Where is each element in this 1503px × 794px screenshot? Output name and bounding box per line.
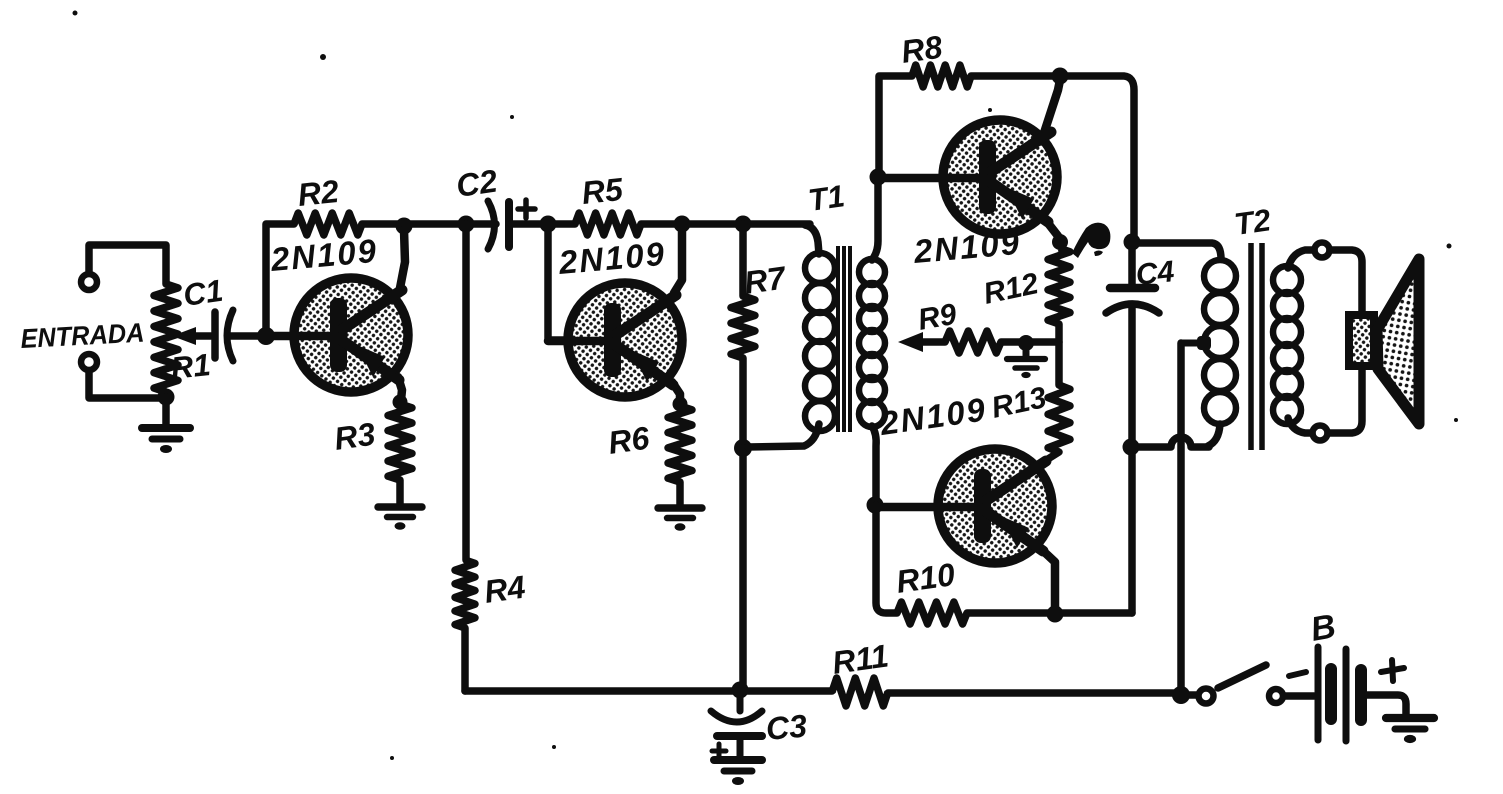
svg-text:R8: R8 [899, 29, 945, 70]
wire terminal bottom to speaker [1328, 366, 1362, 433]
wire T2 tap to battery rail [1177, 343, 1185, 692]
T2 primary bottom crossover hop [1131, 437, 1209, 447]
wire R7 top [739, 224, 747, 296]
wire to ground under R9 [1023, 343, 1030, 357]
svg-text:C3: C3 [764, 708, 808, 747]
resistor R11 [832, 678, 888, 706]
svg-text:R7: R7 [742, 259, 790, 301]
ground under R6 [658, 508, 702, 531]
wire input top to R1 [89, 245, 166, 284]
wire T1 secondary top to Q3 base [872, 181, 878, 260]
wire R2 feedback loop left [266, 224, 294, 336]
svg-text:R3: R3 [332, 416, 378, 457]
capacitor C4 [1106, 288, 1159, 313]
resistor R7 [731, 296, 755, 358]
ground under R3 [378, 507, 422, 530]
wire rail down to R4 [462, 224, 470, 560]
switch lever [1218, 665, 1266, 688]
speaker cone [1377, 259, 1419, 424]
transformer T2 secondary winding [1273, 266, 1301, 294]
svg-text:R6: R6 [606, 420, 652, 461]
transformer T1 secondary winding [859, 259, 885, 285]
resistor R8 [912, 65, 971, 87]
node Q3 base [870, 169, 887, 186]
wire top rail stage1 [362, 220, 496, 228]
resistor R3 [388, 404, 412, 480]
resistor R5 [575, 213, 641, 235]
ink blot (print artifact) [1072, 223, 1110, 258]
node Q4 base [867, 497, 884, 514]
capacitor C1 [215, 310, 233, 361]
plus sign of C2 [518, 200, 535, 218]
wire T1 bottom to bottom rail [739, 448, 747, 690]
wire collector rail to C4 line [971, 76, 1134, 240]
R1 wiper arrow [172, 327, 211, 345]
node battery rail / T2 tap [1172, 686, 1190, 704]
svg-text:T2: T2 [1232, 202, 1273, 242]
wire input bottom to R1 [89, 371, 162, 398]
node C4 top / T2 primary top [1124, 234, 1141, 251]
wire R4 to bottom rail [461, 628, 469, 691]
wire R9 to R12/R13 node [1001, 338, 1058, 346]
wire to switch [1181, 691, 1196, 699]
wire rail into T1 primary [805, 225, 819, 254]
wire node to R13 [1055, 342, 1063, 385]
node T2 primary bottom [1123, 439, 1140, 456]
wire Q4 base line down to R10 [876, 505, 897, 613]
svg-text:R1: R1 [169, 347, 212, 386]
wire R5 loop left / Q2 base [548, 224, 614, 340]
ground under R9 [1007, 359, 1045, 378]
switch throw [1269, 689, 1283, 703]
wire R1 to ground [162, 397, 170, 426]
node R9 / ground [1018, 335, 1034, 351]
resistor R10 [897, 602, 967, 624]
resistor R4 [455, 560, 475, 628]
ground under R1 [142, 428, 190, 453]
wire T2 secondary top [1288, 250, 1314, 268]
speaker terminal top [1315, 243, 1330, 258]
node C2 / R5 loop [540, 216, 557, 233]
input jack terminal top [81, 274, 97, 290]
wire T1 primary bottom [748, 424, 819, 447]
transformer T2 primary winding [1204, 260, 1236, 292]
minus sign [1289, 672, 1306, 676]
node Q2 collector / rail [674, 216, 691, 233]
node Q1 collector / rail [396, 218, 413, 235]
switch pole [1199, 689, 1214, 704]
input jack terminal bottom [81, 354, 97, 370]
svg-text:C1: C1 [181, 273, 225, 313]
capacitor C3 [737, 690, 744, 711]
wire T2 secondary bottom [1288, 418, 1312, 433]
transformer T2 core [1251, 243, 1262, 450]
wire C4 to T2 primary bottom node [1128, 307, 1136, 447]
capacitor C2 [488, 201, 509, 249]
wire R8 loop left [879, 76, 912, 170]
wire T1 secondary bottom to Q4 base [872, 426, 876, 502]
node Q1 emitter / R3 [393, 395, 408, 410]
wire C2 to R5 [511, 220, 575, 228]
wire to T2 primary top [1132, 243, 1221, 259]
wire T2 primary bottom [1208, 424, 1220, 446]
wire battery to ground [1367, 695, 1406, 714]
resistor R9 with arrow to T1 center tap [898, 332, 923, 352]
node rail / R4 [458, 216, 475, 233]
resistor R2 [294, 213, 362, 235]
svg-text:R2: R2 [296, 173, 341, 213]
speaker driver [1349, 315, 1374, 366]
wire down to emitter rail [1128, 447, 1136, 613]
svg-text:R4: R4 [482, 569, 528, 610]
node Q2 emitter / R6 [673, 397, 688, 412]
resistor R1 (volume pot) [154, 284, 178, 392]
node bottom rail / C3 [732, 682, 749, 699]
wire C1 to Q1 base [230, 332, 330, 340]
wire bottom rail right [888, 689, 1181, 697]
ground battery [1386, 718, 1434, 743]
wire terminal top to speaker [1330, 250, 1362, 315]
resistor R6 [668, 406, 692, 482]
T2 center tap [1181, 340, 1202, 347]
ground under C3 [714, 760, 762, 785]
wire node to C4 [1128, 242, 1136, 285]
wire R7 bottom [739, 358, 747, 447]
wire R12 bottom [1055, 324, 1063, 342]
wire bottom rail left [465, 687, 832, 695]
wire emitter rail to C4 line [967, 609, 1132, 617]
resistor R13 [1048, 385, 1070, 452]
node Q4 emitter / bottom rail [1047, 606, 1064, 623]
transformer T1 core [838, 246, 850, 432]
svg-text:C2: C2 [454, 163, 500, 204]
transistor Q3 (2N109) [878, 80, 1060, 236]
resistor R12 [1048, 248, 1070, 324]
wire R13 to Q4 collector [1040, 452, 1059, 464]
transistor Q1 (2N109) [266, 230, 408, 400]
wire R6 to ground [676, 482, 684, 506]
node T1 primary bottom / R7 [734, 439, 752, 457]
transistor Q4 (2N109) [876, 449, 1055, 612]
transformer T1 primary winding [805, 253, 835, 283]
wire R3 to ground [396, 480, 404, 505]
battery B [1318, 647, 1361, 741]
transistor Q2 (2N109) [548, 228, 682, 402]
node R8 / Q3 collector rail [1052, 68, 1069, 85]
svg-text:T1: T1 [806, 178, 847, 218]
wire top rail stage2 to T1 [641, 220, 810, 228]
node Q3 emitter / R12 [1052, 234, 1068, 250]
svg-text:C4: C4 [1134, 255, 1176, 292]
plus sign battery [1381, 660, 1404, 681]
plus sign of C3 [712, 744, 726, 758]
wire switch to battery [1284, 692, 1314, 700]
svg-text:R5: R5 [580, 171, 626, 211]
svg-text:R9: R9 [915, 298, 959, 337]
node rail / R7 [735, 216, 752, 233]
node Q1 base [257, 327, 275, 345]
node R1 bottom [158, 389, 175, 406]
speaker terminal bottom [1313, 426, 1328, 441]
